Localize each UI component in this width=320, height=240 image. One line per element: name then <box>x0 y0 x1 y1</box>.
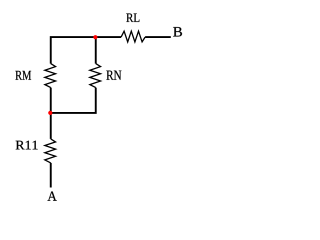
resistor RM <box>45 64 56 88</box>
resistor R11 <box>45 139 56 163</box>
resistor RN <box>90 64 101 88</box>
wire: RN bottom with corner along bottom rail to bottom node <box>51 88 96 113</box>
label B <box>173 27 182 36</box>
wire: R11 to terminal A <box>50 163 52 188</box>
wire: bottom node down to R11 <box>50 113 52 139</box>
label A <box>48 191 57 200</box>
junction dot: bottom node (RM / RN / R11) <box>48 111 52 115</box>
wire: top rail with corner down to RM (node between RM and RL) <box>51 37 121 64</box>
wire: top node down to RN <box>95 37 97 64</box>
wire: RL to terminal B <box>145 36 171 38</box>
wire: RM bottom to bottom node <box>50 88 52 113</box>
label RM <box>15 71 31 80</box>
label RN <box>106 71 121 80</box>
resistor RL <box>121 31 145 42</box>
junction dot: top node (RL / RN / rail) <box>93 35 97 39</box>
label R11 <box>16 141 38 150</box>
label RL <box>126 13 139 21</box>
